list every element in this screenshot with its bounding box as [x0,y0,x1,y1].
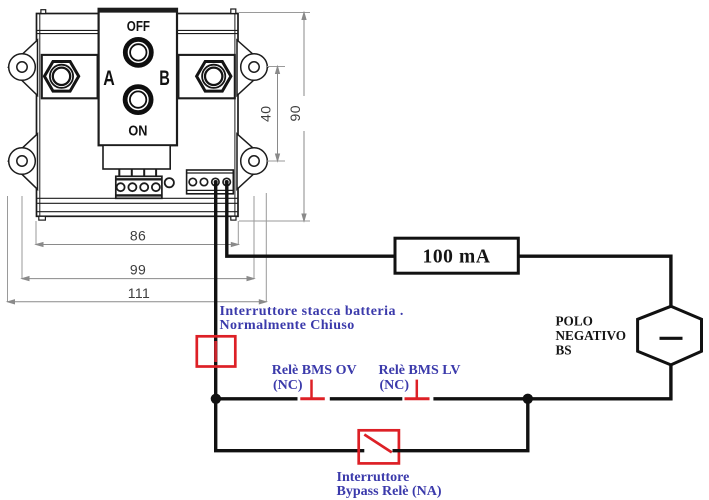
bottom mounting notch right [231,216,236,220]
wire from relay pin 4 to fuse [227,182,395,256]
bottom mounting notch left [39,216,46,220]
svg-text:BS: BS [556,342,572,357]
svg-text:99: 99 [130,262,146,278]
svg-text:(NC): (NC) [273,378,303,393]
fuse 100 mA box [395,238,518,273]
bypass relay box [359,430,399,463]
relè BMS OV contact stem [310,380,313,398]
wire from relay pin 3 down to left junction [214,182,217,399]
mounting ear top-right [237,40,268,96]
dim 86 [36,243,238,247]
negative pole hexagon [638,306,702,365]
wire between BMS contacts [330,397,403,400]
label interruttore stacca batteria [220,304,404,333]
terminal strip [116,176,162,198]
POLO NEGATIVO BS label [556,314,627,358]
dim extension lines [8,13,311,303]
svg-text:(NC): (NC) [380,378,410,393]
top mounting notch right [231,9,236,14]
junction right [523,394,533,404]
svg-text:NEGATIVO: NEGATIVO [556,328,627,343]
OFF button [125,39,151,65]
svg-text:B: B [159,67,170,90]
dim 111 [8,300,267,304]
pin 3 solder dot [214,180,218,184]
control connector [187,170,234,194]
pin 4 solder dot [225,180,229,184]
switch panel [99,9,177,146]
dim 99 [22,277,254,281]
battery disconnect switch box [197,336,236,366]
terminal B housing [178,55,234,98]
relè BMS LV contact bar [405,397,430,400]
svg-text:86: 86 [130,228,146,244]
bottom rail lines [37,198,239,211]
svg-text:Bypass Relè (NA): Bypass Relè (NA) [337,484,442,499]
mounting ear bottom-right [237,134,268,190]
ON button [125,87,151,113]
svg-text:ON: ON [128,124,147,140]
junction left [211,394,221,404]
mounting ear top-left [8,40,37,96]
battery disconnect switch contact (red inside box) [214,341,217,362]
dim 40 [276,67,280,162]
wire left junction to OV contact [216,397,298,400]
relè BMS OV contact bar [300,397,325,400]
minus sign [660,337,683,340]
control connector holes [189,178,230,185]
bypass contact diagonal [364,435,392,453]
relè BMS LV contact stem [416,380,419,398]
svg-text:90: 90 [287,105,303,121]
terminal A housing [42,55,98,98]
label interruttore bypass relè [337,470,442,499]
label relè BMS LV [379,363,461,393]
svg-text:111: 111 [128,285,150,301]
svg-text:POLO: POLO [556,314,593,329]
wire bypass box to right junction [393,399,528,451]
terminal B hex nut [197,62,231,92]
wire fuse to negative pole [518,256,671,307]
svg-text:OFF: OFF [127,19,150,35]
terminal A hex nut [44,62,78,92]
svg-text:100 mA: 100 mA [422,247,490,268]
mounting ear bottom-left [8,134,37,190]
svg-text:Normalmente Chiuso: Normalmente Chiuso [220,318,355,333]
side screw hole [165,178,174,187]
svg-text:Interruttore: Interruttore [337,470,410,485]
top mounting notch left [41,10,46,14]
svg-text:Relè BMS OV: Relè BMS OV [272,363,357,378]
terminal strip holes [117,183,160,191]
svg-text:40: 40 [258,106,274,122]
label relè BMS OV [272,363,357,393]
wire negative pole down and left to LV contact [433,365,671,399]
actuator pins [119,169,156,176]
top rail lines [37,30,239,33]
actuator base block [103,145,170,169]
bypass branch wire left [216,399,365,451]
svg-text:Relè BMS LV: Relè BMS LV [379,363,461,378]
relay body outline [37,14,239,217]
dim 90 [302,13,306,222]
svg-text:A: A [103,67,115,90]
